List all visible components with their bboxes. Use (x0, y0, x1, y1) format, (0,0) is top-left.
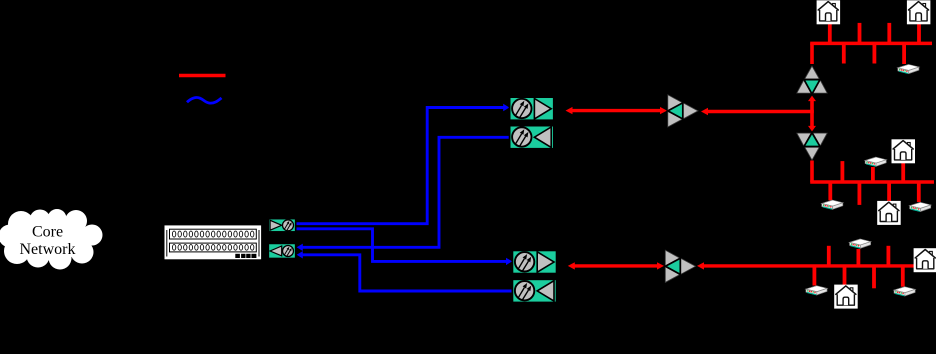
house H3 (892, 139, 916, 163)
tap stub up 2a (841, 161, 845, 182)
tap stub down to modem M1 (902, 43, 906, 64)
coax trunk node1 to amp1 (571, 109, 661, 112)
tap stub up to modem M5 (857, 249, 861, 266)
tap stub up 1b (858, 23, 862, 44)
tap stub up to modem M2 (871, 167, 875, 182)
house H5 (834, 285, 858, 309)
tap stub down to modem M6 (813, 266, 817, 286)
headend fiber Tx box (269, 219, 296, 232)
fiber F3 arrowhead (297, 244, 303, 251)
riser amp3 to distribution line 1 (810, 43, 814, 64)
amplifier A3 (797, 66, 827, 94)
tap stub down to house H4 (887, 182, 891, 201)
legend fiber (blue wavy) (187, 98, 222, 104)
modem M2 (865, 157, 886, 166)
house H2 (907, 0, 931, 24)
fiber F4 arrowhead (297, 251, 303, 258)
svg-text:Network: Network (20, 241, 76, 258)
arrowhead out of amp1 (701, 108, 708, 115)
legend coax (red) (179, 74, 226, 77)
distribution line 2 (810, 180, 934, 184)
tap stub up to house H2 (917, 23, 921, 43)
fiber F3 wire (node1 return to Rx) (302, 137, 510, 247)
tap stub up to house H1 (828, 24, 832, 43)
arrowhead into node1 (566, 107, 573, 114)
arrowhead into amp2 (657, 262, 664, 269)
arrowhead up into amp3 (808, 96, 816, 102)
coax trunk amp1 to junction (707, 110, 814, 113)
node 1 downstream box (510, 97, 554, 120)
CMTS ports row 1 (172, 231, 253, 237)
house H6 (914, 248, 936, 272)
modem M7 (894, 287, 915, 296)
coax trunk node2 to amp2 (574, 264, 658, 267)
node 2 downstream box (512, 250, 556, 273)
junction vertical riser (810, 100, 814, 127)
tap stub down to modem M4 (917, 182, 921, 202)
fiber F2 arrowhead (506, 258, 512, 265)
tap stub up 3b (887, 246, 891, 266)
tap stub down 1b (873, 43, 877, 63)
arrowhead out of amp2 (697, 262, 704, 269)
CMTS indicator squares (235, 254, 256, 258)
amplifier A2 (665, 250, 695, 282)
node 2 upstream box (512, 279, 556, 302)
arrowhead down into amp4 (808, 126, 816, 131)
riser amp4 to distribution line 2 (810, 161, 814, 183)
tap stub down to modem M3 (828, 182, 832, 200)
fiber F2 wire (Tx to node2) (297, 229, 508, 262)
amplifier A1 (668, 95, 698, 127)
tap stub up 1c (887, 23, 891, 44)
modem M3 (822, 200, 843, 209)
CMTS chassis (164, 225, 262, 260)
tap stub down to house H5 (843, 266, 847, 285)
tap stub down 3c (872, 266, 876, 288)
modem M1 (898, 65, 919, 74)
tap stub up to house H3 (901, 163, 905, 182)
distribution line 1 (810, 42, 932, 46)
fiber F1 wire (Tx to node1) (297, 108, 505, 224)
arrowhead into amp1 (660, 107, 667, 114)
house H1 (817, 0, 841, 24)
coax trunk amp2 to distribution line 3 (703, 264, 920, 267)
node 1 upstream box (510, 126, 554, 149)
CMTS ports row 2 (172, 245, 253, 251)
tap stub down 2b (858, 182, 862, 205)
modem M5 (850, 239, 871, 248)
fiber F1 arrowhead (503, 104, 509, 111)
arrowhead into node2 (568, 262, 575, 269)
modem M4 (910, 202, 931, 211)
modem M6 (806, 286, 827, 295)
amplifier A4 (797, 133, 827, 160)
svg-text:Core: Core (32, 223, 63, 240)
tap stub up 3a (827, 246, 831, 266)
headend fiber Rx box (269, 244, 296, 259)
house H4 (877, 201, 901, 225)
tap stub down 1a (842, 43, 846, 63)
tap stub down to modem M7 (901, 266, 905, 287)
fiber F4 wire (node2 return to Rx) (302, 255, 512, 291)
cloud core network (0, 209, 103, 270)
